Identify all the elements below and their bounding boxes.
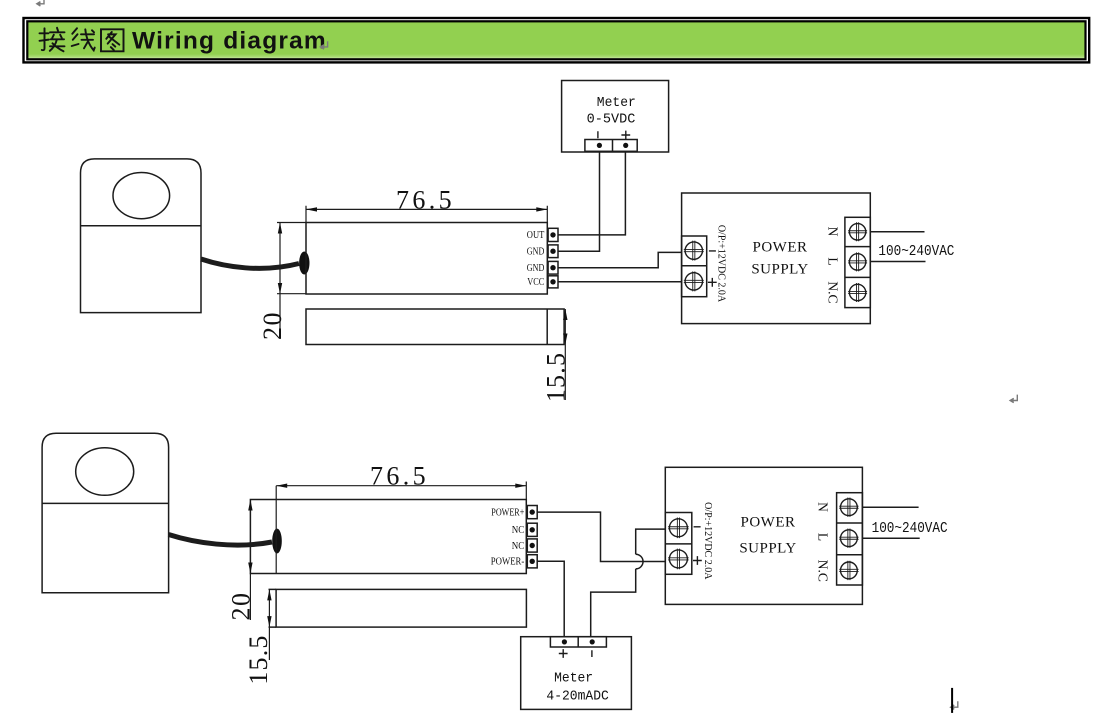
svg-text:N: N [815,502,830,512]
svg-text:Meter: Meter [597,96,636,111]
svg-text:SUPPLY: SUPPLY [751,261,808,277]
svg-text:NC: NC [512,541,525,552]
svg-text:100~240VAC: 100~240VAC [878,244,954,260]
svg-text:Meter: Meter [554,672,593,687]
svg-text:4-20mADC: 4-20mADC [546,690,608,705]
svg-text:76.5: 76.5 [396,185,455,214]
svg-text:OUT: OUT [527,230,545,241]
svg-text:20: 20 [226,592,255,621]
svg-text:Wiring diagram: Wiring diagram [132,27,327,54]
svg-text:POWER: POWER [753,239,808,255]
svg-text:NC: NC [512,525,525,536]
svg-text:GND: GND [527,263,545,274]
svg-text:POWER: POWER [741,515,796,531]
svg-text:L: L [815,533,830,541]
svg-text:POWER+: POWER+ [491,507,524,518]
svg-text:N: N [826,227,841,237]
svg-text:15.5: 15.5 [244,634,273,684]
svg-text:O/P:+12VDC 2.0A: O/P:+12VDC 2.0A [716,225,727,303]
svg-text:20: 20 [258,311,287,340]
svg-text:O/P:+12VDC 2.0A: O/P:+12VDC 2.0A [702,502,713,580]
svg-text:N.C: N.C [826,281,841,303]
svg-text:15.5: 15.5 [542,352,571,402]
svg-text:76.5: 76.5 [370,462,429,491]
svg-text:L: L [826,257,841,265]
svg-text:GND: GND [527,247,545,258]
svg-text:POWER-: POWER- [491,557,525,568]
svg-text:SUPPLY: SUPPLY [739,541,796,557]
svg-text:100~240VAC: 100~240VAC [872,521,948,537]
svg-text:N.C: N.C [815,560,830,582]
svg-text:VCC: VCC [527,277,544,288]
svg-text:0-5VDC: 0-5VDC [587,113,636,128]
